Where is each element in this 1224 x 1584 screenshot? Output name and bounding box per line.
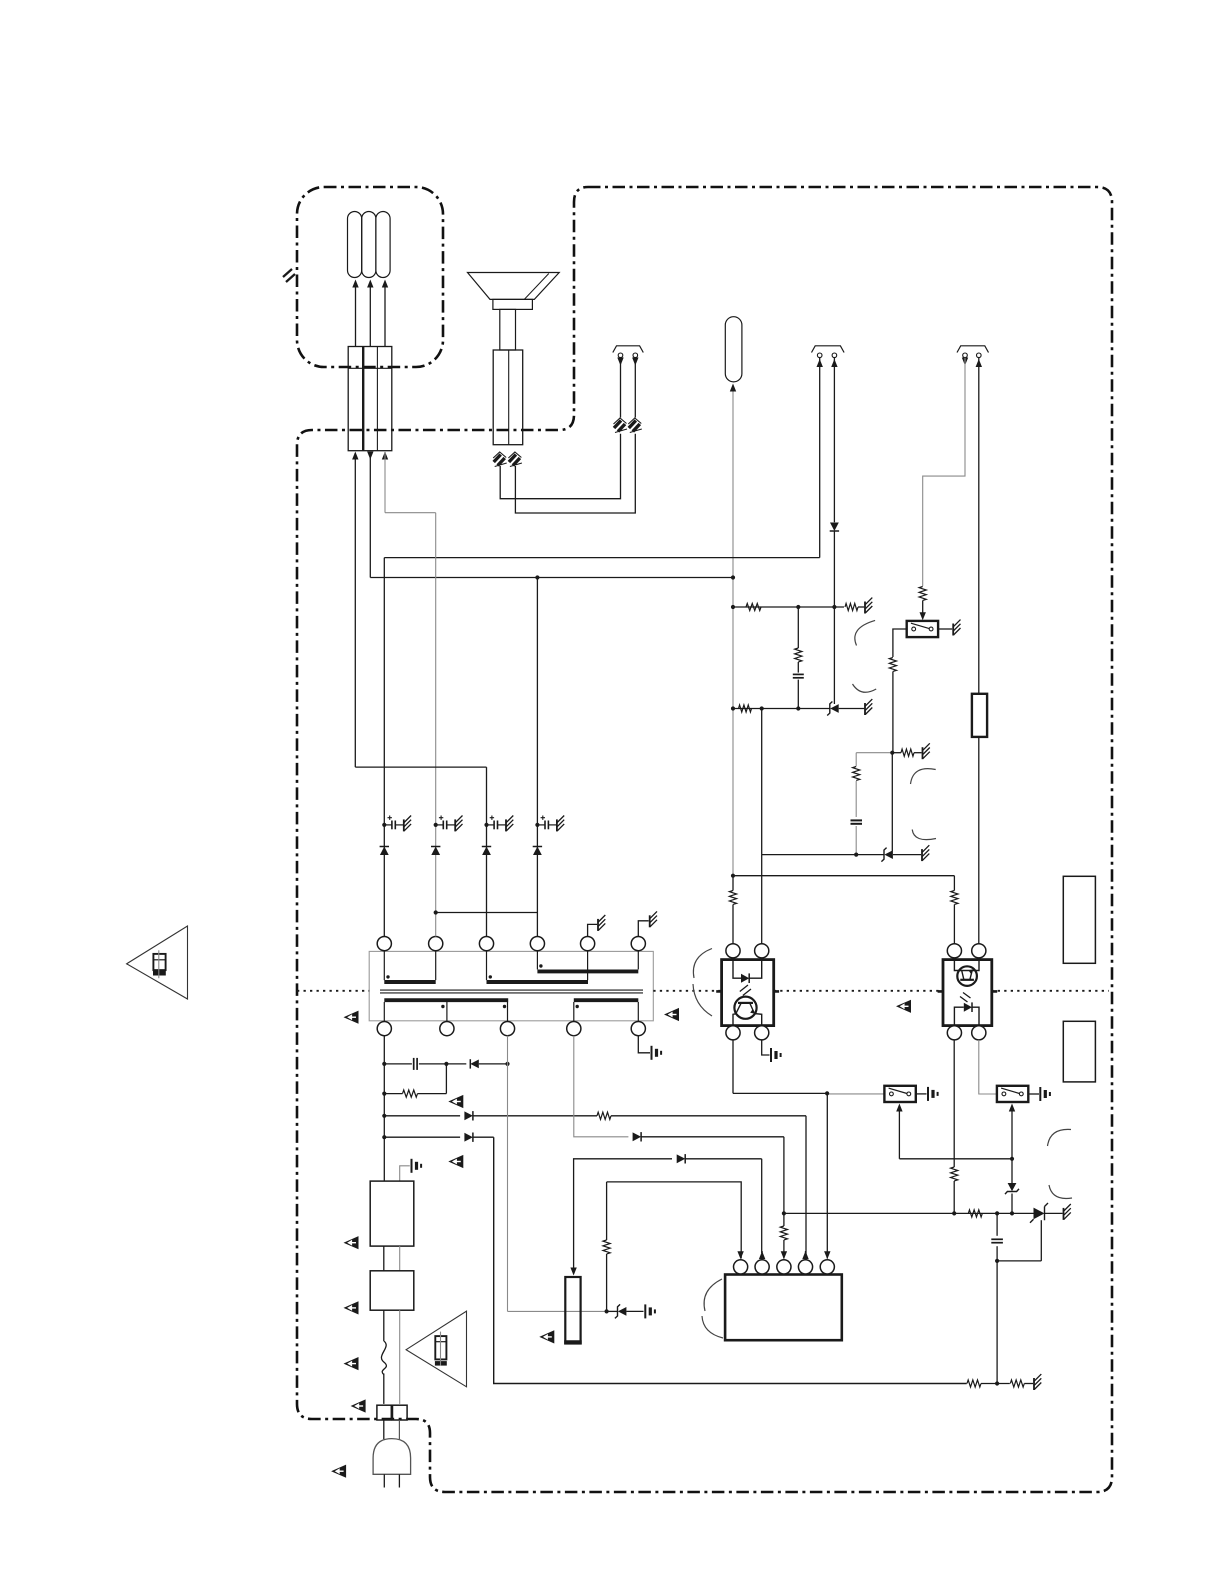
wire C6 down (gray) [855, 826, 857, 855]
zener ZD3 (down) [1005, 1183, 1019, 1194]
ground G15 (earth) above LF1 [400, 1159, 421, 1181]
PC2 LED [954, 1002, 979, 1025]
junction x1012 y1213 [1010, 1211, 1014, 1215]
wire C11-R21 tie [445, 1064, 447, 1094]
capacitor C8 (polarized) to ground [436, 816, 463, 832]
wire SW2 gray feed [979, 1040, 997, 1094]
T1 secondary winding W5 [574, 1000, 639, 1021]
marker M8 [344, 1301, 359, 1314]
resistor R14 to ground [845, 603, 858, 610]
arc A5 [693, 949, 712, 1017]
wire neutral below LF2 (gray) [399, 1310, 401, 1404]
line filter LF2 [370, 1271, 414, 1310]
ground G14 (chassis) end of rail [1024, 1374, 1041, 1390]
wire CN1pin1 to feed c [355, 766, 486, 768]
PC1 pin bottom-left [726, 1026, 740, 1040]
wire row 1115.8 to IC pin4 [611, 1116, 806, 1260]
wire SW2 bottom arrow [1009, 1104, 1015, 1184]
resistor R25 (vertical x606) [603, 1182, 610, 1312]
wire R18-C6 (gray) [855, 781, 857, 817]
junction y708 x761.7 [760, 706, 764, 710]
junction y708 x733 [731, 706, 735, 710]
PC2 pin top-left [947, 944, 961, 958]
ground G5 (chassis) end of row 854 [893, 845, 929, 861]
wire feed c vertical [486, 767, 488, 936]
dash-dot boundary: main power-supply board outline [297, 187, 1112, 1492]
wire R11 to opto PC2 [978, 737, 980, 945]
wire row y=708.5 [733, 708, 830, 710]
wire R19 to PC2 pin [953, 905, 955, 945]
marker M10 [351, 1399, 366, 1412]
wire SW3 left leg [893, 629, 907, 657]
junction y752 x892.3 [890, 751, 894, 755]
T1 primary winding W1 [384, 951, 435, 982]
IC1 pin 5 [820, 1260, 834, 1274]
junction x507 y1063.9 [505, 1062, 509, 1066]
snubber capacitor C11 [384, 1058, 446, 1070]
ground G12 (earth) at T1 pin11 [638, 1036, 661, 1060]
wire LF1-LF2 neutral (gray) [399, 1246, 401, 1271]
junction on net-B at x=733 [731, 575, 735, 579]
connector CN3 pin A [617, 353, 623, 418]
T1 pin 1 (top) [377, 937, 391, 951]
PC1 emission slashes [740, 985, 751, 996]
resistor R16 on row 708 [739, 705, 752, 712]
diode D5 (up) on feed d [533, 847, 542, 856]
capacitor C5 [793, 674, 804, 677]
ground G8 at PC1 bottom-right [762, 1040, 781, 1062]
wire R12 down [892, 672, 894, 753]
marker M11 [331, 1465, 346, 1478]
resistor block R11 (vertical) [972, 694, 987, 737]
junction x997 y1260.9 [995, 1259, 999, 1263]
T1 pin 6 (top) [631, 937, 645, 951]
posistor capsule [725, 317, 742, 382]
wire R17-G4 [892, 752, 921, 754]
junction cap row x=486.5 [484, 823, 488, 827]
AC plug P1 [373, 1439, 411, 1475]
T1 pin 3 (top) [479, 937, 493, 951]
marker M1 (left of T1) [344, 1011, 359, 1024]
T1 secondary winding W4 [384, 1000, 508, 1021]
ground G10 right of SW2 [1028, 1087, 1050, 1101]
resistor R17 to ground [901, 749, 914, 756]
ground G2 (chassis) end of row 607 [858, 598, 872, 614]
capacitor C7 (polarized) to ground [384, 816, 411, 832]
junction y607 x834.4 [832, 605, 836, 609]
wire 798 string [797, 607, 799, 648]
wire R15 to C5 [797, 662, 799, 673]
connector block box B2 [1063, 1021, 1095, 1082]
marker M5 [448, 1155, 463, 1168]
T1 winding W5 polarity dot [576, 1005, 579, 1008]
CRT heater pin 3 (capsule) [376, 212, 390, 278]
switch SW1 [884, 1086, 915, 1102]
wire row y=607 [733, 606, 844, 608]
ground G13 (chassis) after Z1 [1064, 1204, 1071, 1220]
connector CN2 body (2-pin, anode lead) [493, 350, 523, 445]
marker M7 [344, 1236, 359, 1249]
junction y708 x798.3 [796, 706, 800, 710]
wire PC2-BL to row 1213 [953, 1040, 955, 1167]
resistor R13 on row 607 [746, 603, 761, 610]
funnel neck [500, 309, 516, 350]
wire SW1 bottom arrow [896, 1104, 1012, 1159]
wire ZD3 to row 1213 [1011, 1194, 1013, 1214]
wire 761.7 down to PC1 [761, 855, 763, 945]
ground G7 (chassis) at T1 pin6 [638, 911, 657, 936]
junction x384 y1115.8 [382, 1114, 386, 1118]
wire row 1311.4 (gray) [508, 1310, 607, 1312]
warning triangle W1 with fuse icon [127, 926, 188, 999]
wire R10 to SW3 [920, 601, 926, 621]
wire feed d vertical [536, 578, 538, 937]
PC1 phototransistor [733, 997, 762, 1026]
T1 pin 8 (bottom) [440, 1022, 454, 1036]
wire hot-ground left rail [494, 1137, 967, 1383]
T1 winding W4 polarity dots [441, 1005, 506, 1008]
capacitor C9 (polarized) to ground [487, 816, 514, 832]
T1 pin 10 (bottom) [567, 1022, 581, 1036]
connector block box B1 [1063, 876, 1095, 963]
IC1 body (regulator hybrid) [725, 1275, 842, 1341]
arc A2 [853, 684, 877, 692]
junction rail x997 [995, 1381, 999, 1385]
fuse holder block A [377, 1405, 391, 1420]
arrow at IC pin4 [802, 1251, 808, 1259]
wire D9 to IC pin3 [641, 1137, 784, 1214]
wire LF1-LF2 hot [383, 1246, 385, 1271]
junction y607 x798.3 [796, 605, 800, 609]
T1 pin 5 (top) [581, 937, 595, 951]
wire row 1158.8 with diode D10 [570, 1154, 761, 1275]
marker M6 (left of R24) [539, 1330, 554, 1343]
wire D1 to zener row [833, 532, 835, 705]
wire T1 pin7 chain down [383, 1036, 385, 1181]
twist symbol on CN2 wire B [508, 452, 522, 467]
IC1 pin 3 [777, 1260, 791, 1274]
label mark (rotated designator) top-left [283, 269, 295, 282]
arc A3 [911, 769, 936, 784]
marker M2 (right of T1) [664, 1008, 679, 1021]
wire gray to SW1 [827, 1093, 884, 1095]
junction cap row x=384.3 [382, 823, 386, 827]
T1 winding W1 polarity dot [386, 975, 389, 978]
junction x997 y1213 [995, 1211, 999, 1215]
wire 856 string (gray) [855, 753, 857, 766]
connector CN3 bracket [613, 346, 644, 353]
transformer T1 core [380, 990, 643, 993]
junction x384 y1137.2 [382, 1135, 386, 1139]
wire row y=875.7 [733, 875, 954, 877]
connector CN4 bracket [812, 346, 845, 353]
resistor R23 above IC pin3 [780, 1213, 787, 1259]
wire net-A (y=557.6) [384, 557, 819, 559]
junction y912 x435.7 [434, 910, 438, 914]
junction cap row x=435.7 [434, 823, 438, 827]
wire 892 down to zener [891, 753, 893, 851]
junction cap row x=537.4 [535, 823, 539, 827]
diode D7 (right) on row 1115.8 [384, 1111, 597, 1120]
resistor R26 on row 1213 [968, 1210, 982, 1217]
resistor R28 on rail [967, 1380, 981, 1387]
resistor block R24 (vertical) [564, 1277, 582, 1344]
arc A6 [1048, 1129, 1072, 1146]
T1 pin 7 (bottom) [377, 1022, 391, 1036]
zener ZD2 on row 854 [881, 848, 893, 862]
wire feed b vertical [435, 513, 437, 937]
wire C12 loop to Z1 [997, 1220, 1041, 1261]
resistor R12 below SW3 [889, 658, 896, 672]
resistor R27 (vertical x954) [951, 1167, 958, 1213]
isolation barrier dotted line [297, 990, 1109, 992]
marker M4 [448, 1095, 463, 1108]
PC2 pin top-right [972, 944, 986, 958]
resistor R18 (vertical gray) [853, 767, 860, 781]
wire CN1 pin2 to heater [367, 280, 373, 347]
ground G9 right of SW1 [916, 1087, 938, 1101]
zener ZD4 on row 1311.4 [607, 1304, 644, 1318]
dash-dot boundary: CRT/tube assembly box [297, 187, 443, 367]
T1 primary winding W3 [537, 951, 638, 972]
diode D2 (up) on feed a [380, 847, 389, 856]
wire T1 pin9 (gray) down [507, 1036, 509, 1312]
connector CN5 pin A [962, 353, 968, 366]
wire CN1 pin3 down (arrow up) [382, 452, 388, 513]
junction y607 x733 [731, 605, 735, 609]
wire CN2-B to CN3 [515, 434, 635, 513]
AC plug prongs [384, 1474, 399, 1487]
transformer T1 body [369, 951, 653, 1020]
PC2 phototransistor [954, 960, 979, 986]
funnel base plate [493, 299, 533, 309]
junction y1093 x827.1 [825, 1091, 829, 1095]
ground G4 (chassis) [923, 743, 930, 759]
fuse holder block B [393, 1405, 408, 1420]
PC2 pin bottom-left [947, 1026, 961, 1040]
T1 winding W3 polarity dot [539, 964, 542, 967]
wire row y=752.7 (gray) [856, 752, 892, 754]
wire CN5-A jog (gray) [923, 358, 965, 586]
connector CN5 bracket [957, 346, 989, 353]
switch SW3 (jumper) [907, 621, 938, 637]
resistor R29 on rail [1010, 1380, 1024, 1387]
resistor R19 above PC2 [951, 891, 958, 905]
PC1 pin top-left [726, 944, 740, 958]
PC2 emission slashes [960, 993, 971, 1003]
wire CN1 pin1 to heater [352, 280, 358, 347]
wire CN1 pin3 to heater [382, 280, 388, 347]
diode D3 (up) on feed b [431, 847, 440, 856]
wire CN1pin3 jog (gray) [385, 512, 436, 514]
T1 pin 11 (bottom) [631, 1022, 645, 1036]
wire row 1181.9 to IC pin1 [607, 1182, 744, 1259]
T1 primary winding W2 [487, 951, 589, 982]
wire PC1 bottom-left to SW1 [733, 1040, 827, 1094]
ground G11 (earth) end row 1311 [645, 1304, 655, 1318]
wire 954 down to R19 [953, 876, 955, 891]
capacitor C12 below row 1213 [991, 1213, 1003, 1261]
IC1 pin 2 [755, 1260, 769, 1274]
wire C5 to row 708 [797, 680, 799, 709]
line filter LF1 [370, 1181, 414, 1246]
fuse F1 (thermal, S-curve) [381, 1310, 386, 1404]
connector CN3 pin B [632, 353, 638, 418]
T1 pin 2 (top) [429, 937, 443, 951]
connector CN1 body (3-pin) [348, 347, 392, 451]
connector CN4 pin A [817, 353, 823, 558]
warning triangle W2 with fuse icon [406, 1311, 466, 1387]
wire rail segment [981, 1383, 1010, 1385]
junction x384 y1063.9 [382, 1062, 386, 1066]
snubber resistor R21 [384, 1090, 446, 1097]
wire CN2-A to CN3 [500, 434, 620, 499]
wire 733 black segment + R20 [729, 876, 736, 944]
arc A7 [1049, 1185, 1072, 1198]
diode D6 (left) on row 1063.9 [446, 1059, 507, 1068]
switch SW2 [997, 1086, 1028, 1102]
wire CN1 pin1 down (arrow up) [352, 452, 358, 768]
wire T1 pin10 (gray) [574, 1036, 629, 1137]
wire row y=854.6 [762, 854, 884, 856]
wire row y=1213.4 [784, 1212, 1034, 1214]
junction x446 y1063.9 [444, 1062, 448, 1066]
capacitor C6 (gray) [851, 820, 863, 823]
wire capsule to node (gray) [730, 384, 736, 876]
capacitor C10 (polarized) to ground [537, 816, 564, 832]
ground G3 (chassis) end of row 708 [839, 699, 873, 715]
junction on net-B at x=537.4 [535, 575, 539, 579]
CRT funnel symbol [468, 273, 560, 300]
arc A4 [912, 830, 936, 840]
PC1 pin top-right [755, 944, 769, 958]
PC1 pin bottom-right [755, 1026, 769, 1040]
diode D4 (up) on feed c [482, 847, 491, 856]
AC plug cord wires [384, 1420, 400, 1439]
PC1 LED [733, 960, 762, 983]
junction x606 y1311.4 [605, 1309, 609, 1313]
T1 pin 9 (bottom) [500, 1022, 514, 1036]
arc A1 [855, 620, 875, 645]
resistor R15 (vertical) [795, 648, 802, 662]
twist symbol on CN3 wire A [614, 418, 628, 433]
marker M9 [344, 1357, 359, 1370]
twist symbol on CN3 wire B [628, 418, 642, 433]
arrow at IC pin2 [759, 1251, 765, 1259]
junction y854 x856.2 [854, 853, 858, 857]
connector CN5 pin B [976, 353, 982, 694]
surge suppressor Z1 end of row 1213 [1030, 1203, 1063, 1223]
PC2 pin bottom-right [972, 1026, 986, 1040]
junction y875 x733 [731, 874, 735, 878]
wire feed a vertical [383, 558, 385, 937]
ground G1 (chassis) right of SW3 [938, 620, 960, 636]
connector CN4 pin B [831, 353, 837, 522]
CRT heater pin 1 (capsule) [348, 212, 362, 278]
CRT heater pin 2 (capsule) [362, 212, 376, 278]
diode D8 (right) on row 1137.2 [384, 1133, 493, 1142]
junction x783.9 y1213.4 [782, 1211, 786, 1215]
wire net-B (y=577.5) [370, 577, 733, 579]
zener ZD1 on row 708 [827, 702, 838, 716]
arc pair left of IC1 [702, 1279, 723, 1338]
twist symbol on CN2 wire A [493, 452, 507, 467]
diode D9 on row 1136.8 [633, 1132, 642, 1141]
resistor R10 above SW3 [919, 587, 926, 601]
IC1 pin 1 [734, 1260, 748, 1274]
wire CN1 pin2 down (arrow down) [367, 452, 373, 578]
T1 pin 4 (top) [530, 937, 544, 951]
junction x954 y1213 [952, 1211, 956, 1215]
diode D1 on CN4-B line [830, 523, 839, 532]
IC1 pin 4 [798, 1260, 812, 1274]
wire x827 down to IC pin5 [824, 1093, 830, 1259]
optocoupler PC2 body [938, 960, 998, 1026]
wire 761.7 vertical (row708 to row854) [761, 709, 763, 855]
wire 997 down to rail [996, 1261, 998, 1384]
marker M3 (between optocouplers) [896, 1000, 911, 1013]
wire tie row y=912.5 [436, 912, 538, 914]
resistor R22 on row 1115.8 [597, 1112, 611, 1119]
T1 winding W2 polarity dot [489, 975, 492, 978]
ground G6 (chassis) at T1 pin5 [588, 915, 606, 936]
junction y1158 x1012 [1010, 1157, 1014, 1161]
junction x384 y1093.6 [382, 1092, 386, 1096]
optocoupler PC1 body [716, 960, 779, 1026]
